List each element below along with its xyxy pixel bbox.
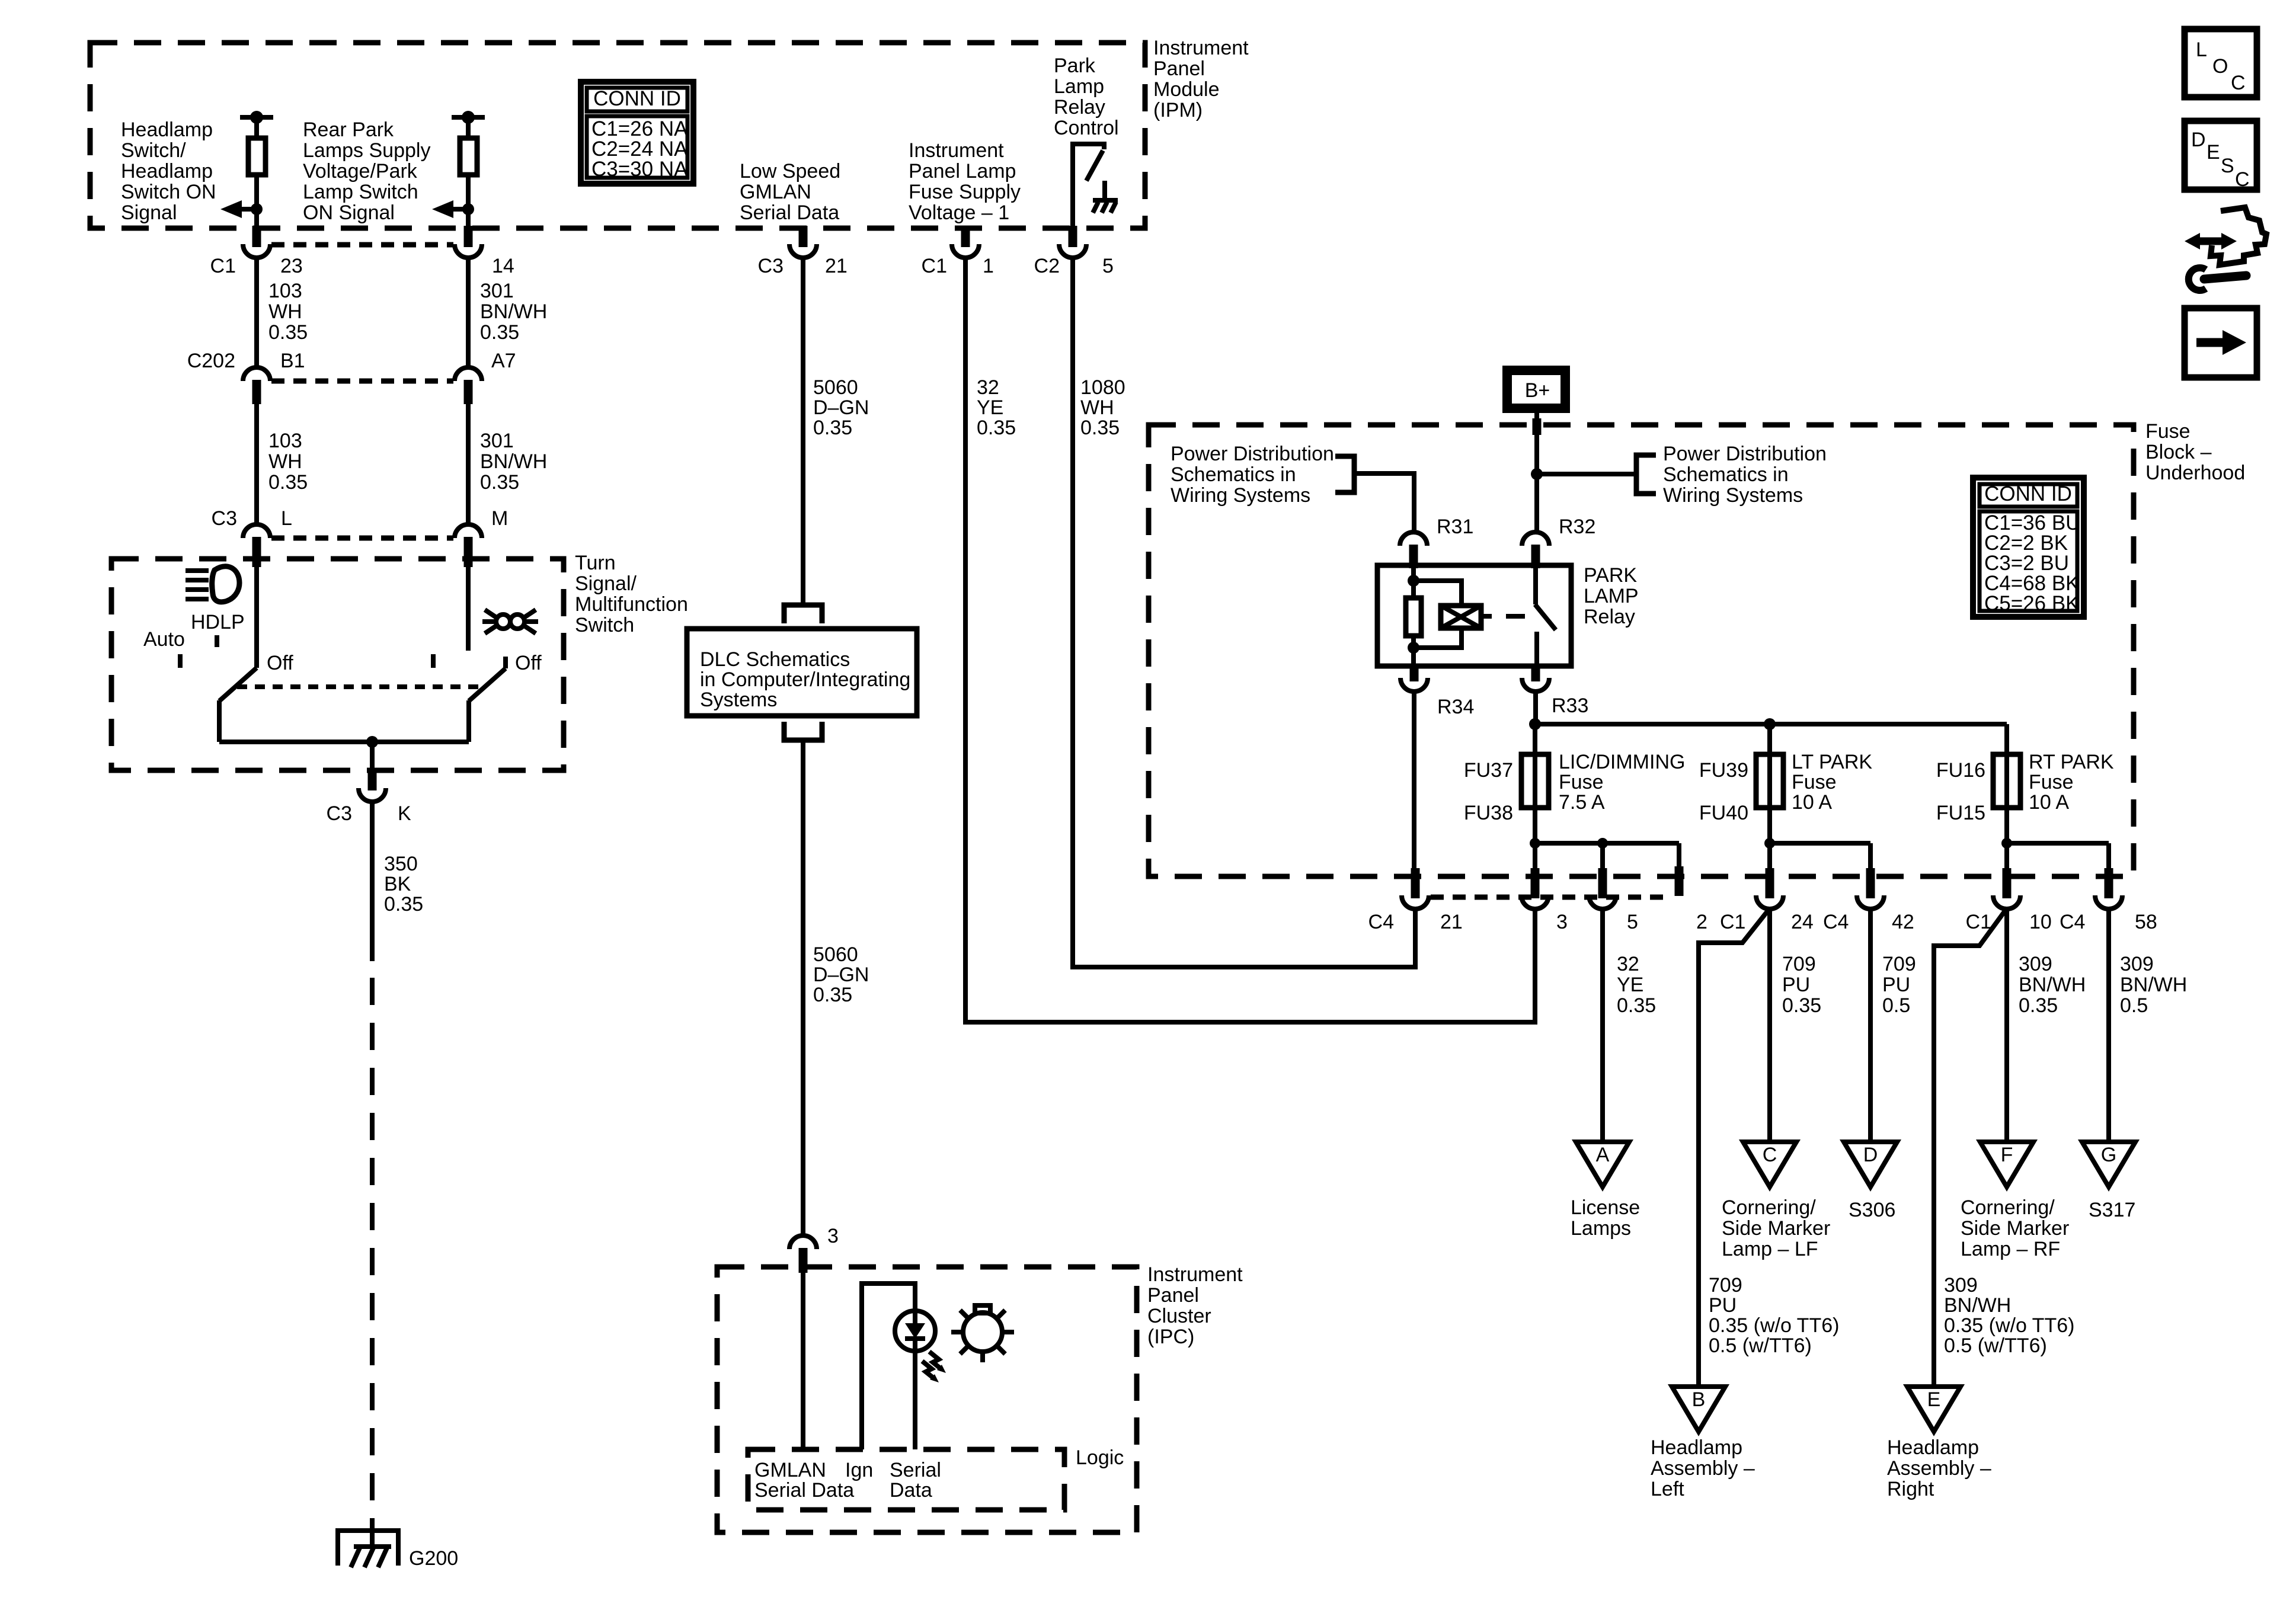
wire rail to RT PARK fuse	[2004, 724, 2009, 754]
svg-text:HDLP: HDLP	[191, 611, 245, 633]
svg-text:R33: R33	[1552, 694, 1588, 717]
svg-text:Assembly –: Assembly –	[1651, 1457, 1755, 1480]
headlamp switch input wire	[254, 567, 259, 668]
svg-text:301: 301	[480, 430, 514, 452]
relay coil wire bottom	[1411, 636, 1416, 666]
relay socket terminal R34 stub+cup	[1410, 666, 1419, 681]
svg-text:0.35: 0.35	[977, 417, 1016, 439]
LED diode symbol	[913, 1312, 917, 1324]
LT PARK fuse label	[1792, 751, 1872, 814]
power distribution label (right)	[1663, 443, 1827, 507]
RT PARK fuse FU16/FU15	[1993, 754, 2020, 808]
Cornering/Side Marker Lamp RF label	[1961, 1196, 2069, 1260]
pin labels C1 1	[922, 255, 994, 277]
reference bracket below DLC box	[784, 722, 822, 740]
relay switch fixed contact top	[1533, 565, 1538, 604]
wire from resistor to arrow node	[254, 175, 259, 228]
svg-text:C4: C4	[2060, 911, 2085, 933]
svg-text:32: 32	[977, 376, 999, 399]
svg-text:FU16: FU16	[1936, 759, 1985, 782]
svg-text:D: D	[1863, 1144, 1878, 1166]
wire 301 BN/WH segment 1	[466, 257, 471, 369]
svg-text:1080: 1080	[1080, 376, 1125, 399]
svg-text:Fuse: Fuse	[1792, 771, 1837, 793]
svg-text:B+: B+	[1525, 379, 1550, 402]
svg-text:10 A: 10 A	[1792, 791, 1832, 814]
svg-text:24: 24	[1791, 911, 1814, 933]
power distribution label (left)	[1171, 443, 1334, 507]
serial data label	[890, 1459, 941, 1502]
svg-text:0.35: 0.35	[480, 321, 519, 344]
IPM label text	[1153, 37, 1249, 121]
svg-text:G200: G200	[409, 1547, 458, 1570]
svg-text:Module: Module	[1153, 78, 1220, 101]
connector pin 3 cup+stub (IPC)	[789, 1235, 817, 1249]
relay coil (resistor)	[1406, 598, 1421, 636]
rear park lamps supply label	[303, 119, 430, 224]
pin label 42	[1892, 911, 1914, 933]
svg-text:BN/WH: BN/WH	[480, 300, 547, 323]
wire label 103 WH 0.35	[268, 430, 308, 494]
GMLAN wire inside IPC	[801, 1273, 805, 1449]
svg-text:309: 309	[1944, 1274, 1978, 1297]
svg-text:Instrument: Instrument	[1153, 37, 1249, 59]
svg-text:Panel: Panel	[1153, 57, 1205, 80]
Headlamp Assembly Left label	[1651, 1436, 1755, 1500]
svg-text:5060: 5060	[813, 943, 858, 966]
LIC fuse output rail	[1535, 808, 1679, 843]
svg-text:(IPM): (IPM)	[1153, 99, 1203, 121]
svg-text:Switch ON: Switch ON	[121, 181, 216, 203]
svg-text:32: 32	[1617, 953, 1639, 975]
svg-text:C5=26 BK: C5=26 BK	[1984, 592, 2080, 615]
svg-text:C4: C4	[1368, 911, 1394, 933]
inline connector dotted line (IPM bottom row)	[271, 242, 453, 248]
wire R33 to fuse rail	[1533, 691, 1538, 724]
svg-text:Relay: Relay	[1054, 96, 1105, 119]
svg-text:Lamps: Lamps	[1571, 1217, 1631, 1240]
svg-text:C: C	[2235, 168, 2250, 191]
Auto label	[143, 628, 185, 651]
svg-text:C2: C2	[1034, 255, 1060, 277]
wire label 5060 D-GN 0.35 (lower)	[813, 943, 869, 1006]
DESC legend box	[2185, 121, 2257, 191]
low speed GMLAN serial data label	[740, 160, 840, 224]
svg-text:WH: WH	[1080, 396, 1114, 419]
svg-text:C4: C4	[1823, 911, 1849, 933]
wire label 709 PU 0.35/0.5 TT6	[1709, 1274, 1839, 1357]
inline connector C3 dotted line	[271, 536, 453, 541]
wire to power distribution reference (right)	[1537, 472, 1636, 476]
svg-text:Off: Off	[515, 652, 542, 674]
pin label 3	[1556, 911, 1568, 933]
svg-text:S317: S317	[2089, 1199, 2135, 1221]
svg-text:0.35: 0.35	[384, 893, 423, 916]
svg-text:Instrument: Instrument	[1147, 1263, 1243, 1286]
svg-text:Assembly –: Assembly –	[1887, 1457, 1991, 1480]
svg-text:BN/WH: BN/WH	[480, 450, 547, 473]
svg-text:0.35: 0.35	[480, 471, 519, 494]
off-page connector triangle E	[1907, 1387, 1961, 1432]
branch to pin 10	[2004, 843, 2009, 869]
off-page connector triangle F	[1980, 1142, 2033, 1187]
svg-text:RT PARK: RT PARK	[2029, 751, 2114, 773]
svg-text:BN/WH: BN/WH	[1944, 1294, 2011, 1317]
wire label 709 PU 0.5	[1882, 953, 1916, 1017]
relay control switch blade	[1086, 151, 1103, 181]
svg-text:Relay: Relay	[1584, 606, 1635, 628]
svg-text:Left: Left	[1651, 1478, 1684, 1500]
svg-text:PU: PU	[1782, 974, 1810, 996]
wire label 32 YE 0.35	[1617, 953, 1656, 1017]
svg-text:Headlamp: Headlamp	[121, 119, 213, 141]
svg-text:O: O	[2212, 55, 2228, 78]
LT fuse output rail	[1770, 808, 1870, 843]
wire rail to LT PARK fuse	[1767, 724, 1772, 754]
svg-text:Schematics in: Schematics in	[1663, 463, 1789, 486]
wire 32 YE from IPM C1-1 to fuse block pin 3	[965, 257, 1535, 1022]
wire label 301 BN/WH 0.35	[480, 280, 547, 344]
svg-text:Right: Right	[1887, 1478, 1934, 1500]
headlamp switch position tick (Auto)	[178, 654, 183, 668]
svg-text:Park: Park	[1054, 55, 1096, 77]
svg-text:M: M	[491, 507, 508, 530]
svg-text:Schematics in: Schematics in	[1171, 463, 1296, 486]
park lamp switch input wire	[466, 567, 471, 651]
svg-text:14: 14	[492, 255, 514, 277]
svg-text:Switch/: Switch/	[121, 139, 186, 162]
svg-text:FU37: FU37	[1464, 759, 1513, 782]
wire label 1080 WH 0.35	[1080, 376, 1125, 439]
connector pin 3 stub+cup	[1531, 868, 1540, 898]
svg-text:0.35: 0.35	[813, 417, 852, 439]
G200 label	[409, 1547, 458, 1570]
svg-text:Serial Data: Serial Data	[740, 201, 839, 224]
PARK LAMP relay box	[1377, 565, 1571, 666]
svg-text:S: S	[2221, 155, 2234, 177]
svg-text:WH: WH	[268, 300, 302, 323]
svg-text:B: B	[1692, 1388, 1706, 1411]
connector C3 pin L cup+stub	[243, 524, 270, 538]
wire 309 BN/WH to cornering lamp RF	[2004, 908, 2009, 1142]
svg-text:10: 10	[2029, 911, 2052, 933]
svg-text:LT PARK: LT PARK	[1792, 751, 1872, 773]
svg-text:C3: C3	[327, 802, 352, 825]
svg-text:103: 103	[268, 280, 302, 302]
connector C202 pin B1 cup+stub	[243, 367, 270, 381]
coil bottom junction dot	[1408, 642, 1419, 654]
headlamp switch signal label	[121, 119, 216, 224]
wire label 709 PU 0.35	[1782, 953, 1821, 1017]
svg-text:5: 5	[1102, 255, 1114, 277]
pin label 5	[1627, 911, 1638, 933]
svg-text:5: 5	[1627, 911, 1638, 933]
svg-text:0.35: 0.35	[2019, 994, 2058, 1017]
Instrument Panel Cluster dashed box	[717, 1267, 1137, 1532]
relay socket terminal R33 stub+cup	[1531, 666, 1540, 681]
svg-text:0.5 (w/TT6): 0.5 (w/TT6)	[1709, 1334, 1812, 1357]
Headlamp Assembly Right label	[1887, 1436, 1991, 1500]
svg-text:58: 58	[2135, 911, 2157, 933]
park lamp switch position tick	[431, 654, 436, 668]
resistor (headlamp switch pull-up)	[248, 138, 266, 175]
svg-text:42: 42	[1892, 911, 1914, 933]
connector C3 pin 21 stub+cup	[799, 226, 808, 247]
svg-text:350: 350	[384, 853, 418, 875]
svg-text:FU40: FU40	[1699, 802, 1748, 824]
svg-text:DLC Schematics: DLC Schematics	[700, 648, 850, 671]
park lamp switch blade	[469, 668, 506, 701]
svg-text:BN/WH: BN/WH	[2120, 974, 2187, 996]
pin labels C4 21	[1368, 911, 1463, 933]
svg-text:Cornering/: Cornering/	[1722, 1196, 1816, 1219]
pin labels C3 21	[758, 255, 848, 277]
wire 309 BN/WH to headlamp assembly right	[1934, 908, 2007, 1387]
S306 label	[1849, 1199, 1895, 1221]
svg-text:0.5: 0.5	[1882, 994, 1910, 1017]
svg-text:Voltage/Park: Voltage/Park	[303, 160, 418, 183]
Off label (park lamp switch)	[515, 652, 542, 674]
svg-text:709: 709	[1882, 953, 1916, 975]
DLC schematics reference box	[687, 629, 917, 716]
B+ power symbol box	[1507, 370, 1565, 408]
wire 709 PU to cornering lamp LF	[1767, 908, 1772, 1142]
pin label 14	[492, 255, 514, 277]
svg-text:0.35: 0.35	[1080, 417, 1120, 439]
LED emission arrows	[929, 1352, 942, 1369]
svg-text:0.35: 0.35	[268, 321, 308, 344]
svg-text:103: 103	[268, 430, 302, 452]
svg-text:3: 3	[827, 1225, 839, 1247]
svg-text:Underhood: Underhood	[2145, 462, 2245, 484]
svg-text:C: C	[2231, 72, 2246, 94]
svg-text:Wiring Systems: Wiring Systems	[1171, 484, 1310, 507]
pin labels C202 B1	[187, 350, 305, 372]
wire LED to logic	[913, 1351, 917, 1449]
pin labels C2 5	[1034, 255, 1114, 277]
svg-text:Signal/: Signal/	[575, 572, 637, 595]
wire label 32 YE 0.35	[977, 376, 1016, 439]
svg-text:309: 309	[2019, 953, 2052, 975]
svg-text:Headlamp: Headlamp	[1887, 1436, 1979, 1459]
Off label (headlamp switch)	[267, 652, 293, 674]
pin labels C3 L	[212, 507, 292, 530]
headlamp switch blade	[219, 668, 257, 701]
svg-text:Lamp – RF: Lamp – RF	[1961, 1238, 2060, 1260]
svg-text:21: 21	[825, 255, 848, 277]
turn signal switch label	[575, 552, 688, 636]
wire 103 WH segment 1	[254, 257, 259, 369]
svg-text:0.5: 0.5	[2120, 994, 2148, 1017]
svg-text:Switch: Switch	[575, 614, 634, 636]
svg-text:Panel Lamp: Panel Lamp	[909, 160, 1016, 183]
svg-text:Lamp – LF: Lamp – LF	[1722, 1238, 1818, 1260]
svg-text:0.35 (w/o TT6): 0.35 (w/o TT6)	[1944, 1314, 2074, 1337]
connector C2 pin 5 stub+cup	[1069, 226, 1077, 247]
svg-text:Lamp Switch: Lamp Switch	[303, 181, 418, 203]
svg-text:23: 23	[280, 255, 303, 277]
svg-text:GMLAN: GMLAN	[754, 1459, 826, 1481]
svg-text:0.5 (w/TT6): 0.5 (w/TT6)	[1944, 1334, 2047, 1357]
wire B+ feed	[1534, 412, 1539, 533]
wire 32 YE to license lamps	[1600, 908, 1605, 1142]
svg-text:Multifunction: Multifunction	[575, 593, 688, 616]
connector C4 pin 24 stub+cup	[1766, 868, 1774, 898]
svg-text:C202: C202	[187, 350, 235, 372]
svg-text:FU39: FU39	[1699, 759, 1748, 782]
svg-text:Serial: Serial	[890, 1459, 941, 1481]
Instrument Panel Module (IPM) dashed box	[90, 43, 1145, 228]
svg-text:YE: YE	[977, 396, 1003, 419]
svg-text:Ign: Ign	[845, 1459, 873, 1481]
svg-text:PU: PU	[1709, 1294, 1737, 1317]
svg-text:Side Marker: Side Marker	[1722, 1217, 1830, 1240]
arrow node dot	[251, 203, 263, 215]
svg-text:0.35: 0.35	[268, 471, 308, 494]
svg-text:3: 3	[1556, 911, 1568, 933]
svg-text:BK: BK	[384, 873, 411, 895]
svg-text:L: L	[2196, 39, 2207, 61]
svg-text:Lamps Supply: Lamps Supply	[303, 139, 430, 162]
svg-text:0.35: 0.35	[1617, 994, 1656, 1017]
FU37 FU38 labels	[1464, 759, 1513, 824]
wire R34 to C4-21	[1412, 691, 1416, 871]
svg-text:Power Distribution: Power Distribution	[1171, 443, 1334, 465]
svg-text:709: 709	[1782, 953, 1816, 975]
svg-text:10 A: 10 A	[2029, 791, 2069, 814]
arrow node dot	[462, 203, 474, 215]
svg-text:Cornering/: Cornering/	[1961, 1196, 2055, 1219]
svg-text:F: F	[2001, 1144, 2013, 1166]
svg-text:Rear Park: Rear Park	[303, 119, 394, 141]
LT PARK fuse FU39/FU40	[1756, 754, 1783, 808]
branch to pin 5	[1600, 843, 1605, 869]
signal arrow pointing left	[451, 207, 468, 212]
svg-text:Signal: Signal	[121, 201, 177, 224]
FU39 FU40 labels	[1699, 759, 1748, 824]
off-page connector triangle B	[1672, 1387, 1725, 1432]
connector pin 5 stub+cup	[1598, 868, 1607, 898]
GMLAN serial data label	[754, 1459, 854, 1502]
svg-text:WH: WH	[268, 450, 302, 473]
svg-text:CONN ID: CONN ID	[1984, 482, 2072, 505]
svg-text:Data: Data	[890, 1479, 932, 1502]
pin label 58	[2135, 911, 2157, 933]
svg-text:YE: YE	[1617, 974, 1643, 996]
wire label 301 BN/WH 0.35	[480, 430, 547, 494]
park lamp relay control label	[1054, 55, 1119, 139]
wire 5060 D-GN lower segment	[801, 740, 805, 1237]
svg-text:Fuse: Fuse	[2145, 420, 2191, 443]
ground G200	[335, 1531, 401, 1567]
branch stub to C1 pin 2	[1677, 843, 1681, 866]
pin label A7	[491, 350, 516, 372]
svg-text:0.35: 0.35	[1782, 994, 1821, 1017]
internal node bar + dot, wire A top	[240, 115, 273, 120]
headlamp switch pole wire	[217, 700, 222, 742]
park lamp relay control driver wire	[1073, 144, 1104, 228]
reference bracket above DLC box	[784, 605, 822, 623]
off-page connector triangle D	[1844, 1142, 1897, 1187]
svg-text:0.35: 0.35	[813, 984, 852, 1006]
svg-text:R32: R32	[1559, 516, 1595, 538]
B+ junction dot	[1531, 468, 1543, 480]
svg-text:Logic: Logic	[1076, 1446, 1124, 1469]
svg-text:21: 21	[1440, 911, 1463, 933]
svg-text:License: License	[1571, 1196, 1640, 1219]
svg-text:D: D	[2191, 129, 2206, 151]
connector pin 58 stub+cup	[2105, 868, 2113, 898]
branch to pin 3	[1533, 843, 1537, 869]
svg-text:C1: C1	[1966, 911, 1991, 933]
wire 709 PU 0.5 to S306	[1868, 908, 1873, 1142]
headlamp icon	[186, 566, 239, 602]
reference bracket (right power distribution)	[1636, 455, 1656, 494]
svg-text:Block –: Block –	[2145, 441, 2212, 463]
reference bracket (left power distribution)	[1335, 456, 1354, 492]
CONN ID table (IPM)	[581, 82, 693, 184]
svg-text:Cluster: Cluster	[1147, 1305, 1211, 1327]
switch output rail	[219, 740, 469, 744]
pin labels C1 / 10 C4	[1966, 911, 2086, 933]
svg-text:7.5 A: 7.5 A	[1559, 791, 1605, 814]
svg-text:2: 2	[1696, 911, 1707, 933]
relay switch blade	[1535, 604, 1556, 630]
instrument panel lamp fuse supply label	[909, 139, 1021, 224]
connector C1 pin 14 stub+cup	[464, 226, 473, 247]
pin labels 2 C1 / 24 C4	[1696, 911, 1849, 933]
S317 label	[2089, 1199, 2135, 1221]
svg-text:FU15: FU15	[1936, 802, 1985, 824]
connector C4 pin 10 stub+cup	[2003, 868, 2012, 898]
svg-text:A: A	[1596, 1144, 1610, 1166]
svg-text:Lamp: Lamp	[1054, 75, 1104, 98]
svg-text:Low Speed: Low Speed	[740, 160, 840, 183]
wire label 309 BN/WH 0.35/0.5 TT6	[1944, 1274, 2074, 1357]
Fuse Block - Underhood dashed box	[1149, 425, 2134, 876]
branch to pin 58	[2106, 843, 2111, 869]
svg-text:Power Distribution: Power Distribution	[1663, 443, 1827, 465]
RT fuse output rail	[2007, 808, 2109, 843]
svg-text:LAMP: LAMP	[1584, 585, 1639, 607]
svg-text:FU38: FU38	[1464, 802, 1513, 824]
wire 1080 WH from IPM C2-5 to fuse block C4-21	[1073, 257, 1415, 967]
LOC legend box	[2185, 29, 2257, 97]
wire 301 BN/WH segment 2	[466, 404, 471, 526]
relay linkage dashes	[1481, 614, 1492, 619]
off-page connector triangle C	[1743, 1142, 1796, 1187]
wire 309 BN/WH 0.5 to S317	[2106, 908, 2111, 1142]
wire 709 PU to headlamp assembly left	[1699, 908, 1770, 1387]
connector C1 pin 1 stub+cup	[961, 226, 970, 247]
svg-text:Headlamp: Headlamp	[121, 160, 213, 183]
svg-text:CONN ID: CONN ID	[593, 87, 681, 110]
svg-text:C1: C1	[210, 255, 236, 277]
wire label 309 BN/WH 0.5	[2120, 953, 2187, 1017]
fuse block label	[2145, 420, 2245, 484]
wire label 350 BK 0.35	[384, 853, 423, 916]
svg-text:Wiring Systems: Wiring Systems	[1663, 484, 1803, 507]
output wire to C3 K	[370, 742, 375, 772]
wire from resistor to arrow node	[466, 175, 471, 228]
resistor (park lamp supply)	[460, 138, 477, 175]
svg-text:GMLAN: GMLAN	[740, 181, 811, 203]
ign feed loop	[862, 1283, 915, 1449]
svg-text:D–GN: D–GN	[813, 964, 869, 986]
branch to pin 24	[1767, 843, 1772, 869]
svg-text:Systems: Systems	[700, 689, 777, 711]
svg-text:E: E	[2207, 141, 2220, 164]
